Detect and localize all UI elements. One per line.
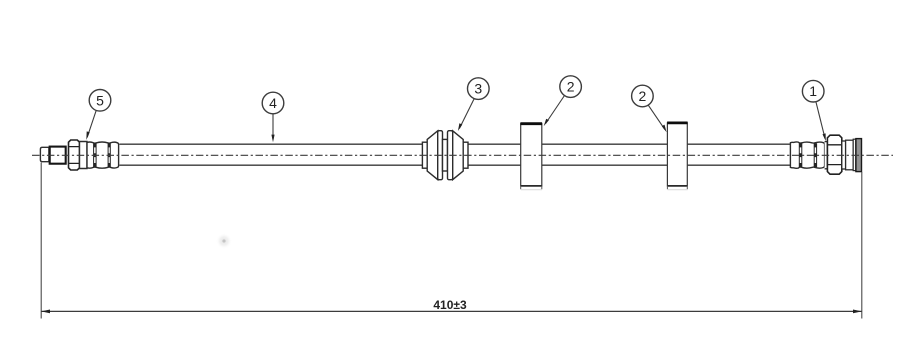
left fitting threaded block: [50, 147, 66, 164]
svg-text:2: 2: [567, 79, 575, 95]
svg-text:3: 3: [474, 81, 482, 97]
dimension arrow left: [41, 310, 50, 314]
svg-text:410±3: 410±3: [433, 298, 467, 312]
dimension arrow right: [853, 310, 862, 314]
balloon 4: [262, 92, 284, 114]
right fitting cylinder: [846, 140, 854, 170]
grommet rib 2: [448, 131, 453, 180]
grommet left cone: [427, 131, 438, 180]
dimension line: [41, 310, 862, 312]
clip 2 bottom edge: [667, 185, 687, 187]
balloon 3 leader: [459, 99, 474, 129]
clip 1 body: [521, 124, 542, 186]
wire hose segment D: [687, 144, 790, 165]
grommet right collar: [463, 142, 468, 168]
balloon 3: [468, 78, 490, 100]
clip 1 bottom edge: [521, 185, 542, 187]
dimension text 410±3: [433, 298, 467, 312]
left sleeve crimp marks: [94, 143, 111, 167]
center line (dash-dot): [32, 154, 893, 156]
balloon 1 leader: [816, 102, 825, 139]
grommet rib 1: [438, 131, 443, 180]
clip 2 body: [667, 123, 687, 186]
grommet left collar: [422, 142, 427, 168]
right sleeve crimp marks: [799, 143, 816, 167]
wire hose segment C: [542, 144, 668, 165]
clip 2 bold top edge: [667, 122, 688, 125]
balloon 5: [89, 90, 111, 112]
balloon 5 leader: [87, 110, 96, 137]
svg-text:1: 1: [809, 83, 817, 99]
balloon 2 left: [560, 76, 582, 98]
grommet valley: [443, 139, 448, 171]
svg-text:4: 4: [269, 95, 277, 111]
right crimp sleeve: [790, 142, 827, 169]
balloon 2 right leader: [648, 105, 665, 130]
right fitting neck: [842, 141, 846, 169]
balloon 4 leader: [272, 114, 274, 139]
wire hose segment B: [468, 144, 521, 165]
svg-text:5: 5: [96, 92, 104, 108]
extension line left: [40, 163, 42, 319]
wire hose segment A top/bottom lines: [120, 144, 423, 165]
balloon 1: [802, 80, 824, 102]
faint smudge artifact: [216, 233, 232, 249]
right fitting groove ring: [853, 139, 856, 170]
right fitting end disc (seal washer): [856, 139, 862, 172]
extension line right: [861, 172, 863, 319]
svg-text:2: 2: [639, 88, 647, 104]
right fitting hex nut: [827, 135, 841, 174]
left fitting tip: [40, 147, 49, 161]
grommet right cone: [453, 131, 464, 180]
balloon 2 right: [632, 85, 654, 107]
left crimp sleeve: [80, 142, 120, 169]
balloon 2 left leader: [546, 96, 565, 124]
left fitting hex nut: [69, 140, 80, 170]
clip 1 bold top edge: [520, 122, 542, 125]
